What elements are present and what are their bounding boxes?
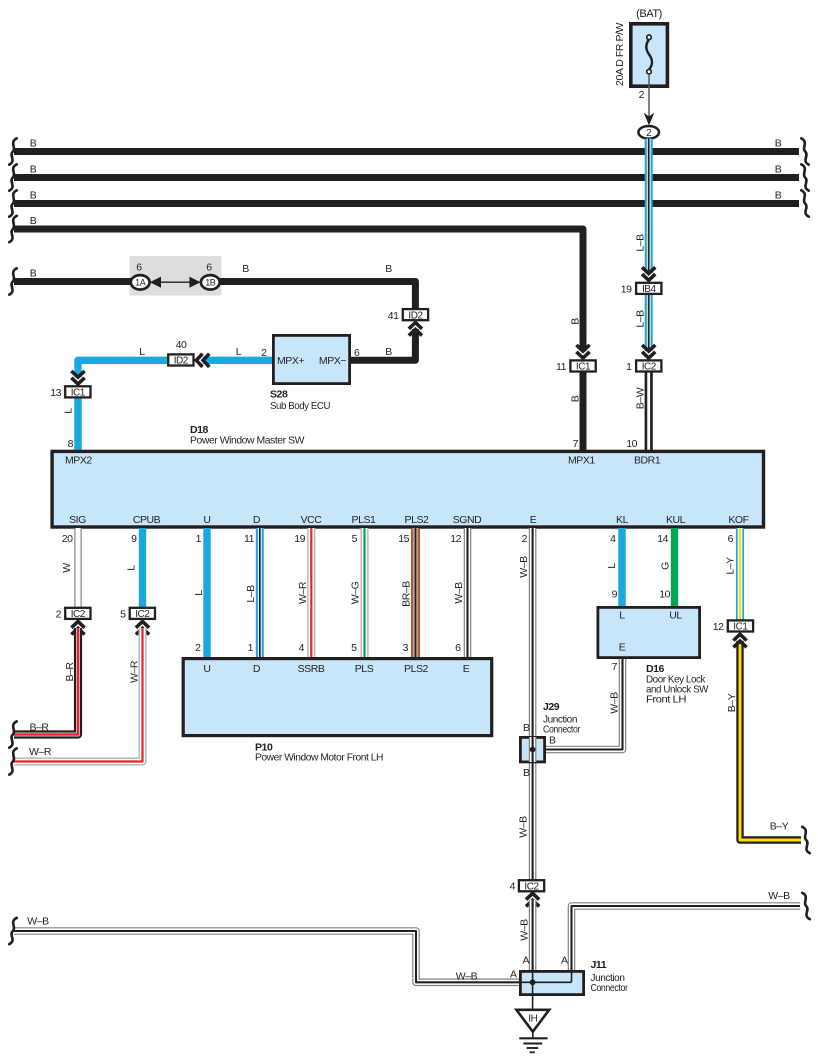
svg-text:B–Y: B–Y [770,821,789,833]
wire W-R from VCC to P10 SSRB [307,528,315,657]
svg-text:B: B [242,263,249,275]
wire fuse to connector 2 [648,74,650,118]
svg-text:IC1: IC1 [71,388,86,399]
svg-text:L: L [236,346,242,358]
svg-text:IC2: IC2 [524,881,539,892]
wire L from KL to D16 pin 9 [618,528,625,606]
svg-text:W–B: W–B [519,919,531,941]
svg-text:41: 41 [388,310,399,322]
wire W-B from D16 E to J29 [546,659,623,750]
connector ID2 pin 41 [403,309,428,320]
connector IC1 pin 13 [65,386,90,397]
wire bus B line 1 [14,148,799,155]
svg-text:6: 6 [136,262,142,274]
svg-text:E: E [619,642,626,654]
svg-text:IC1: IC1 [576,362,591,373]
svg-text:IB4: IB4 [642,284,657,295]
svg-text:B: B [570,395,582,402]
wire W-B from SGND to P10 E [464,528,472,657]
block S28 Sub Body ECU [273,335,349,383]
svg-text:IH: IH [528,1014,537,1025]
svg-text:B: B [549,735,556,747]
wire W-B from IC2(4) to J11 [529,900,537,970]
svg-text:W–B: W–B [518,556,530,578]
svg-text:B: B [30,164,37,176]
break symbol W-R [9,748,17,774]
svg-text:D: D [253,514,261,526]
svg-text:L–Y: L–Y [725,557,737,575]
svg-text:U: U [203,663,210,675]
svg-text:11: 11 [244,533,255,545]
connector 1A [131,275,150,289]
svg-text:G: G [660,562,672,570]
svg-text:B: B [523,767,530,779]
svg-text:B–R: B–R [64,662,76,682]
svg-text:L–B: L–B [245,585,257,603]
connector IC1 pin 12 [728,620,753,631]
wire W-B from left to J11 [14,931,519,982]
svg-text:20: 20 [62,533,73,545]
connector IC2 pin 2 [65,608,90,619]
svg-text:L: L [619,610,625,622]
ground triangle IH [516,1010,549,1032]
break symbol W-B left [9,918,17,944]
svg-text:2: 2 [195,642,201,654]
svg-text:E: E [530,514,537,526]
svg-text:IC2: IC2 [71,609,86,620]
connector 2 oval [638,126,659,139]
arrow into IC2 pin 4 [526,893,539,906]
svg-text:PLS: PLS [355,663,374,675]
svg-text:5: 5 [352,533,358,545]
svg-text:J29: J29 [543,701,560,713]
arrow into IC1 pin11 [576,345,589,358]
svg-text:1: 1 [248,642,254,654]
svg-text:4: 4 [510,881,516,893]
svg-text:40: 40 [176,339,187,351]
svg-text:B: B [775,190,782,202]
svg-text:KL: KL [616,514,629,526]
svg-text:BDR1: BDR1 [634,455,661,467]
svg-text:UL: UL [669,610,682,622]
svg-text:D: D [253,663,261,675]
svg-text:19: 19 [621,284,632,296]
svg-text:IC1: IC1 [733,622,748,633]
wire L-B from D to P10 [256,528,264,657]
svg-text:Sub Body ECU: Sub Body ECU [270,400,330,412]
svg-text:W–R: W–R [29,746,52,758]
break symbol line5 left [9,268,17,294]
block P10 Power Window Motor Front LH [183,659,492,736]
wire W-B from J11 to right [572,906,801,970]
arrow into IC2 pin 5 [136,622,149,635]
svg-text:A: A [510,969,517,981]
svg-text:4: 4 [299,642,305,654]
arrow into IC2 pin1 [642,345,655,358]
svg-text:W: W [61,563,73,573]
wire bus B line 4 to D18 MPX1 pin 7 [14,229,583,351]
wire W-R from IC2(5) to left [14,628,143,762]
wire W-B from D18 E through J29 to IC2(4) [529,528,537,879]
svg-text:ID2: ID2 [174,356,189,367]
svg-text:1B: 1B [205,278,216,288]
svg-text:15: 15 [398,533,409,545]
arrow into ID2 pin41 [409,323,422,336]
svg-text:14: 14 [657,533,668,545]
svg-text:PLS2: PLS2 [404,663,428,675]
svg-text:6: 6 [206,262,212,274]
break symbol line4 left [9,216,17,242]
svg-text:L–B: L–B [635,234,647,252]
svg-text:Front LH: Front LH [646,694,686,706]
wire B-W from IC2 to D18 BDR1 pin 10 [645,372,653,451]
svg-text:L: L [606,563,618,569]
svg-text:MPX−: MPX− [319,355,346,367]
svg-text:4: 4 [610,533,616,545]
svg-text:B–W: B–W [635,387,647,409]
wire B-Y from IC1(12) to right [740,641,801,840]
svg-text:Connector: Connector [591,982,629,994]
arrow into ID2 pin 40 [196,354,209,367]
connector IC1 pin 11 [570,360,595,371]
svg-text:(BAT): (BAT) [636,8,662,20]
svg-text:B: B [30,268,37,280]
svg-text:9: 9 [612,589,618,601]
wire L from CPUB to IC2(5) [139,528,146,607]
break symbol B-Y [802,827,810,853]
junction connector J29 [520,737,544,762]
svg-text:B: B [385,346,392,358]
svg-text:SIG: SIG [69,514,86,526]
wire W from SIG to IC2(2) [74,528,81,607]
svg-text:A: A [522,955,529,967]
junction connector J11 [520,971,583,994]
svg-text:10: 10 [659,589,670,601]
svg-text:L: L [139,346,145,358]
svg-text:1: 1 [626,361,632,373]
svg-text:6: 6 [728,533,734,545]
svg-text:W–B: W–B [453,582,465,604]
svg-text:19: 19 [294,533,305,545]
svg-text:MPX+: MPX+ [277,355,304,367]
svg-text:KUL: KUL [666,514,686,526]
svg-text:L: L [126,565,138,571]
svg-text:KOF: KOF [728,514,748,526]
svg-text:8: 8 [68,438,74,450]
svg-text:B: B [30,190,37,202]
wire L from U to P10 [203,528,210,657]
svg-text:W–B: W–B [768,890,790,902]
arrow into connector 2 [644,113,655,126]
arrow into IB4 [642,267,655,280]
wire G from KUL to D16 pin 10 [671,528,678,606]
splice shield gray box around 1A/1B [130,256,222,296]
svg-text:11: 11 [556,361,567,373]
break symbol line1 right [801,138,809,164]
svg-text:B: B [385,263,392,275]
svg-text:2: 2 [261,347,267,359]
break symbol line3 left [9,190,17,216]
svg-text:SGND: SGND [453,514,482,526]
arrow into IC2 pin 2 [71,622,84,635]
break symbol W-B right [802,893,810,919]
svg-text:2: 2 [639,89,645,101]
svg-text:Power Window Master SW: Power Window Master SW [190,435,305,447]
svg-text:12: 12 [450,533,461,545]
svg-text:13: 13 [50,387,61,399]
wire L-B from connector 2 through IB4 to IC2 [645,139,653,274]
svg-text:Connector: Connector [543,724,581,736]
svg-text:B: B [523,722,530,734]
svg-text:CPUB: CPUB [133,514,161,526]
wire BR-B from PLS2 to P10 PLS2 [411,528,420,657]
svg-text:VCC: VCC [301,514,323,526]
svg-text:B: B [570,318,582,325]
svg-text:W–B: W–B [456,971,478,983]
wire to ground [532,982,534,1008]
svg-text:W–G: W–G [350,581,362,604]
svg-text:6: 6 [455,642,461,654]
connector IC2 pin 4 [519,880,544,891]
svg-text:W–B: W–B [27,916,49,928]
wire bus B line 3 [14,200,799,207]
svg-text:10: 10 [626,438,637,450]
svg-text:1A: 1A [135,278,146,288]
svg-text:PLS1: PLS1 [352,514,376,526]
svg-text:W–B: W–B [609,692,621,714]
wire bus B line 5 to ID2 and S28 MPX- [14,278,141,285]
svg-text:B: B [775,164,782,176]
connector ID2 pin 40 [168,354,193,365]
svg-text:L: L [63,408,75,414]
svg-text:PLS2: PLS2 [405,514,429,526]
svg-text:6: 6 [354,347,360,359]
svg-text:7: 7 [612,661,618,673]
junction dot J11 [530,979,536,985]
svg-text:A: A [561,955,568,967]
wire W-G from PLS1 to P10 PLS [361,528,369,657]
svg-text:W–B: W–B [518,816,530,838]
break symbol line2 left [9,164,17,190]
block D16 Door Key Lock and Unlock SW Front LH [598,607,700,657]
svg-text:12: 12 [713,621,724,633]
connector IB4 [636,283,661,294]
svg-text:SSRB: SSRB [298,663,325,675]
break symbol line3 right [801,190,809,216]
svg-text:B–Y: B–Y [726,693,738,712]
svg-text:9: 9 [131,533,137,545]
connector IC2 pin 1 [636,360,661,371]
svg-text:Power Window Motor Front LH: Power Window Motor Front LH [255,752,383,764]
svg-text:ID2: ID2 [408,310,423,321]
ground symbol [532,1032,534,1039]
svg-text:BR–B: BR–B [401,581,413,607]
svg-text:5: 5 [351,642,357,654]
svg-text:W–R: W–R [129,660,141,683]
svg-text:2: 2 [56,609,62,621]
connector IC2 pin 5 [130,608,155,619]
svg-text:7: 7 [573,438,579,450]
svg-text:L: L [193,590,205,596]
svg-text:MPX2: MPX2 [65,455,92,467]
junction dot J29 [530,747,536,753]
svg-text:5: 5 [120,609,126,621]
wire L-Y from KOF to IC1(12) [736,528,744,621]
connector 1B [201,275,220,289]
svg-text:B: B [775,138,782,150]
svg-text:L–B: L–B [635,310,647,328]
svg-text:20A D FR P/W: 20A D FR P/W [614,23,626,86]
svg-text:J11: J11 [591,959,607,971]
svg-text:IC2: IC2 [135,609,150,620]
svg-text:2: 2 [646,128,652,139]
svg-text:S28: S28 [270,389,288,401]
arrow into IC1 pin 12 [733,634,746,647]
wire L from S28 MPX+ through ID2(40) to IC1(13) and D18 pin 8 [203,357,272,364]
wire B-R from IC2(2) to left [14,628,78,735]
svg-text:1: 1 [196,533,202,545]
svg-text:2: 2 [522,533,528,545]
svg-text:B: B [30,215,37,227]
break symbol line1 left [9,138,17,164]
svg-text:MPX1: MPX1 [568,455,595,467]
svg-text:U: U [203,514,210,526]
svg-text:W–R: W–R [297,581,309,604]
break symbol line2 right [801,164,809,190]
break symbol B-R [9,721,17,747]
splice arrows between 1A and 1B [159,281,191,283]
svg-text:IC2: IC2 [642,362,657,373]
wire bus B line 2 [14,174,799,181]
svg-text:B–R: B–R [29,722,49,734]
svg-text:3: 3 [403,642,409,654]
svg-text:E: E [463,663,470,675]
arrow into IC1 pin 13 [71,371,84,384]
svg-text:B: B [30,138,37,150]
